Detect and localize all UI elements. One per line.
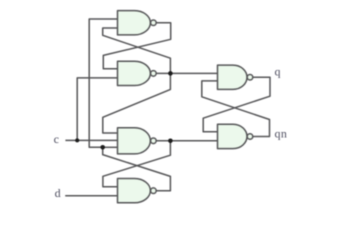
wire G4 output to node N4 (103, 147, 171, 190)
node N4 junction (G4 out to G1/G3) (100, 145, 105, 150)
wire node N2 to G1 bottom input (103, 28, 171, 73)
wire node N4 to G3 bottom input (103, 146, 118, 148)
wire c input stub (65, 139, 117, 141)
svg-text:c: c (54, 132, 59, 146)
wire node N3 to G4 top input (103, 141, 170, 187)
wire d input to G4 (65, 195, 117, 197)
wire node N4 to G1 top input (89, 19, 117, 147)
nand gate G1 (118, 11, 157, 35)
wire node N2 to G3 top input (103, 73, 171, 133)
wire G5 output to q corner to G6 top input (203, 77, 270, 132)
svg-text:d: d (55, 186, 61, 200)
wire G3 output to node N3 to G6 input (155, 140, 217, 142)
wire G1 output to G2 top input (103, 23, 170, 69)
wire G2 output to node N2 to G5 input (155, 72, 217, 74)
nand gate G6 (218, 124, 253, 148)
wire c to G2 clock input (77, 78, 117, 140)
nand gate G2 (118, 61, 157, 85)
nand gate G4 (118, 179, 157, 203)
nand gate G5 (218, 65, 253, 89)
node junction on c line (75, 138, 79, 142)
wire G6 output to qn corner to G5 bottom input (202, 81, 270, 137)
svg-text:qn: qn (275, 126, 288, 140)
nand gate G3 (118, 128, 157, 154)
node N3 junction (G3 out) (168, 139, 173, 144)
node N2 junction (G2 out) (168, 71, 173, 76)
svg-text:q: q (275, 65, 281, 79)
